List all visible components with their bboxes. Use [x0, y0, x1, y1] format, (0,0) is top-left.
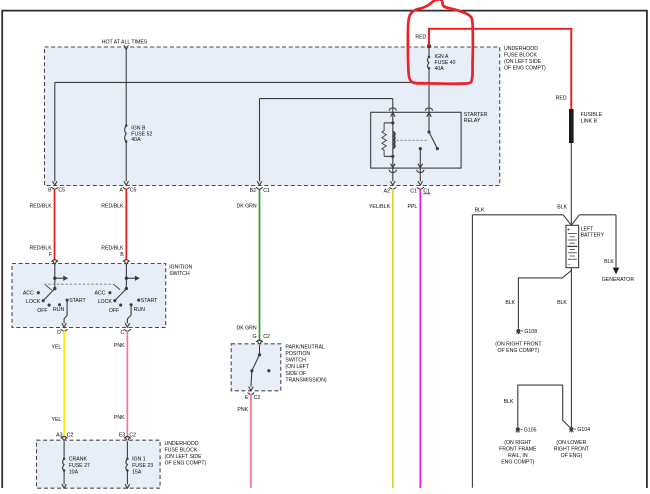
svg-text:(ON RIGHT FRONT: (ON RIGHT FRONT — [495, 342, 542, 348]
svg-text:C1: C1 — [263, 188, 270, 194]
svg-text:A: A — [120, 187, 124, 193]
svg-text:PNK: PNK — [114, 343, 125, 349]
svg-text:YEL: YEL — [51, 417, 61, 423]
svg-text:FRONT FRAME: FRONT FRAME — [499, 447, 537, 453]
svg-text:FUSIBLE: FUSIBLE — [581, 112, 603, 118]
svg-text:RAIL, IN: RAIL, IN — [508, 453, 528, 459]
svg-text:(ON LOWER: (ON LOWER — [556, 440, 586, 446]
svg-text:DK GRN: DK GRN — [237, 326, 257, 332]
svg-text:A2: A2 — [384, 189, 390, 195]
svg-text:DK GRN: DK GRN — [237, 203, 257, 209]
svg-text:B2: B2 — [250, 188, 256, 194]
svg-text:RELAY: RELAY — [464, 118, 481, 124]
svg-text:C2: C2 — [254, 395, 261, 401]
svg-text:(ON LEFT SIDE: (ON LEFT SIDE — [504, 59, 542, 65]
svg-text:RED/BLK: RED/BLK — [29, 246, 52, 252]
svg-text:RIGHT FRONT: RIGHT FRONT — [554, 446, 590, 452]
svg-text:FUSE 23: FUSE 23 — [132, 463, 153, 469]
svg-text:LEFT: LEFT — [581, 226, 595, 232]
svg-text:YEL: YEL — [51, 345, 61, 351]
svg-text:BLK: BLK — [475, 208, 485, 214]
svg-text:OF ENG COMPT): OF ENG COMPT) — [504, 66, 546, 72]
svg-text:F: F — [49, 252, 52, 258]
svg-text:START: START — [141, 298, 158, 304]
svg-text:PPL: PPL — [407, 204, 417, 210]
svg-text:BATTERY: BATTERY — [581, 233, 605, 239]
svg-text:C5: C5 — [130, 187, 137, 193]
svg-text:RED: RED — [415, 34, 426, 40]
svg-text:C2: C2 — [67, 432, 74, 438]
svg-text:G104: G104 — [577, 427, 590, 433]
svg-text:RUN: RUN — [53, 307, 64, 313]
svg-text:D: D — [57, 330, 61, 336]
svg-text:OFF: OFF — [109, 308, 119, 314]
svg-text:+: + — [567, 228, 570, 234]
svg-text:(ON LEFT SIDE: (ON LEFT SIDE — [165, 454, 203, 460]
svg-text:B: B — [120, 252, 124, 258]
svg-text:40A: 40A — [131, 137, 141, 143]
svg-text:C5: C5 — [58, 187, 65, 193]
svg-text:B: B — [48, 187, 52, 193]
svg-text:FUSE BLOCK: FUSE BLOCK — [165, 447, 198, 453]
svg-text:OFF: OFF — [37, 308, 47, 314]
svg-text:STARTER: STARTER — [464, 112, 488, 118]
svg-text:C2: C2 — [263, 334, 270, 340]
svg-text:UNDERHOOD: UNDERHOOD — [504, 46, 538, 52]
svg-text:10A: 10A — [69, 469, 79, 475]
svg-text:LOCK: LOCK — [26, 299, 41, 305]
svg-text:YEL/BLK: YEL/BLK — [369, 204, 391, 210]
svg-text:ACC: ACC — [94, 291, 105, 297]
svg-text:C1: C1 — [410, 189, 417, 195]
svg-text:BLK: BLK — [504, 399, 514, 405]
svg-text:G105: G105 — [524, 427, 537, 433]
svg-text:BLK: BLK — [557, 205, 567, 211]
svg-text:PNK: PNK — [237, 407, 248, 413]
svg-text:IGNITION: IGNITION — [169, 265, 192, 271]
svg-text:POSITION: POSITION — [285, 351, 310, 357]
svg-text:BLK: BLK — [505, 300, 515, 306]
svg-text:PNK: PNK — [114, 415, 125, 421]
svg-text:RED/BLK: RED/BLK — [101, 204, 124, 210]
svg-text:TRANSMISSION): TRANSMISSION) — [285, 377, 326, 383]
svg-text:RED/BLK: RED/BLK — [101, 246, 124, 252]
svg-text:LINK B: LINK B — [581, 118, 598, 124]
svg-text:−: − — [567, 262, 570, 268]
svg-text:SWITCH: SWITCH — [285, 358, 306, 364]
svg-text:CRANK: CRANK — [69, 457, 88, 463]
svg-text:UNDERHOOD: UNDERHOOD — [165, 441, 199, 447]
svg-text:15A: 15A — [132, 469, 142, 475]
svg-text:OF ENG COMPT): OF ENG COMPT) — [165, 460, 207, 466]
svg-text:(ON RIGHT: (ON RIGHT — [504, 440, 532, 446]
svg-text:IGN 1: IGN 1 — [132, 457, 146, 463]
svg-text:ENG COMPT): ENG COMPT) — [501, 460, 534, 466]
svg-text:OF ENG COMPT): OF ENG COMPT) — [498, 348, 540, 354]
svg-text:SWITCH: SWITCH — [169, 271, 190, 277]
svg-text:HOT AT ALL TIMES: HOT AT ALL TIMES — [102, 39, 148, 45]
svg-text:RED: RED — [556, 95, 567, 101]
svg-text:SIDE OF: SIDE OF — [285, 371, 306, 377]
svg-text:RUN: RUN — [134, 307, 145, 313]
svg-text:PARK/NEUTRAL: PARK/NEUTRAL — [285, 344, 325, 350]
svg-text:START: START — [69, 298, 86, 304]
svg-text:E: E — [245, 395, 249, 401]
svg-text:GENERATOR: GENERATOR — [602, 277, 635, 283]
svg-text:BLK: BLK — [557, 300, 567, 306]
svg-text:(ON LEFT: (ON LEFT — [285, 364, 309, 370]
svg-text:ACC: ACC — [23, 291, 34, 297]
svg-text:G108: G108 — [524, 329, 537, 335]
svg-text:C: C — [120, 330, 124, 336]
svg-text:FUSE BLOCK: FUSE BLOCK — [504, 53, 537, 59]
svg-text:G: G — [253, 334, 257, 340]
svg-text:BLK: BLK — [604, 259, 614, 265]
svg-text:OF ENG): OF ENG) — [561, 453, 583, 459]
svg-text:40A: 40A — [435, 66, 445, 72]
svg-text:FUSE 27: FUSE 27 — [69, 463, 90, 469]
svg-text:LOCK: LOCK — [98, 299, 113, 305]
svg-text:RED/BLK: RED/BLK — [29, 204, 52, 210]
